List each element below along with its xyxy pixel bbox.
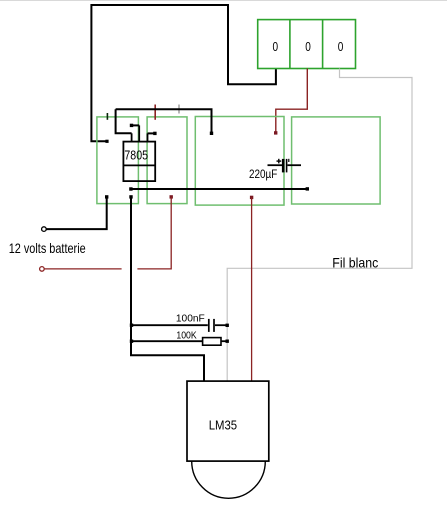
breadboard rect 4 <box>292 117 381 204</box>
image top border (decorative) <box>0 0 447 2</box>
wire battery minus terminal <box>46 197 106 229</box>
terminal circle plus (red) <box>40 267 45 272</box>
wire battery minus loop to display pin 1 <box>91 5 276 141</box>
wire pad B down to LM35 left pin <box>131 197 204 381</box>
capacitor C1 220uF <box>268 159 302 173</box>
pin tick gray on rect2 top <box>178 105 180 114</box>
svg-text:100K: 100K <box>176 329 196 341</box>
node on rect3 top <box>210 132 213 135</box>
capacitor C2 100nF <box>132 319 228 332</box>
wire top rail to rect3 <box>116 109 212 133</box>
node left of ground rail <box>129 187 132 190</box>
svg-text:0: 0 <box>273 39 279 54</box>
wire +12V from terminal <box>44 268 121 270</box>
wire 7805 input from rect1 <box>116 109 132 133</box>
wire +12V from red pad down-left <box>137 197 171 269</box>
breadboard rect 2 <box>147 117 187 204</box>
terminal circle minus <box>42 227 47 232</box>
display counter module <box>258 20 356 69</box>
breadboard rect 3 <box>195 117 284 206</box>
node red on rect3 top <box>274 131 277 134</box>
node rect1 bottom pad B <box>129 195 132 198</box>
wire display pin2 to rect3 (dark red) <box>276 69 308 133</box>
LM35 dome <box>192 461 266 498</box>
node rect1 bottom pad A <box>105 195 108 198</box>
breadboard rect 1 <box>97 117 138 204</box>
svg-text:12 volts batterie: 12 volts batterie <box>9 240 86 256</box>
wire 7805 pin3 to rect2 <box>148 132 155 134</box>
svg-text:100nF: 100nF <box>176 313 205 325</box>
resistor R1 100K <box>132 340 203 342</box>
node on rect1 (loop end) <box>105 140 108 143</box>
svg-text:0: 0 <box>305 39 311 54</box>
node on black wire (100K row) <box>130 340 133 343</box>
wire 7805 pin2 <box>132 124 140 126</box>
wire ground rail under 7805 <box>131 188 307 190</box>
wire red pad down to LM35 right pin <box>251 197 253 381</box>
LM35 sensor body <box>187 381 269 461</box>
node on black wire (100nF row) <box>130 324 133 327</box>
node 100nF right on gray wire <box>226 324 229 327</box>
node pin2 pad <box>130 124 133 127</box>
pin tick on rect1 top <box>106 113 108 120</box>
svg-text:LM35: LM35 <box>209 417 237 432</box>
svg-text:Fil blanc: Fil blanc <box>332 254 378 270</box>
svg-text:0: 0 <box>338 39 344 54</box>
wire Fil blanc (display pin3 to LM35 middle pin, gray) <box>227 69 412 382</box>
svg-text:7805: 7805 <box>124 149 148 163</box>
svg-text:220µF: 220µF <box>249 169 277 181</box>
node red rect3 bottom pad <box>250 196 253 199</box>
node pin3 pad <box>153 132 156 135</box>
node 100K right on gray wire <box>226 340 229 343</box>
node red rect2 bottom pad <box>170 195 173 198</box>
7805 regulator U1 <box>123 125 155 181</box>
node right of ground rail on rect4 <box>306 187 309 190</box>
pin tick red on rect2 top <box>154 105 156 120</box>
